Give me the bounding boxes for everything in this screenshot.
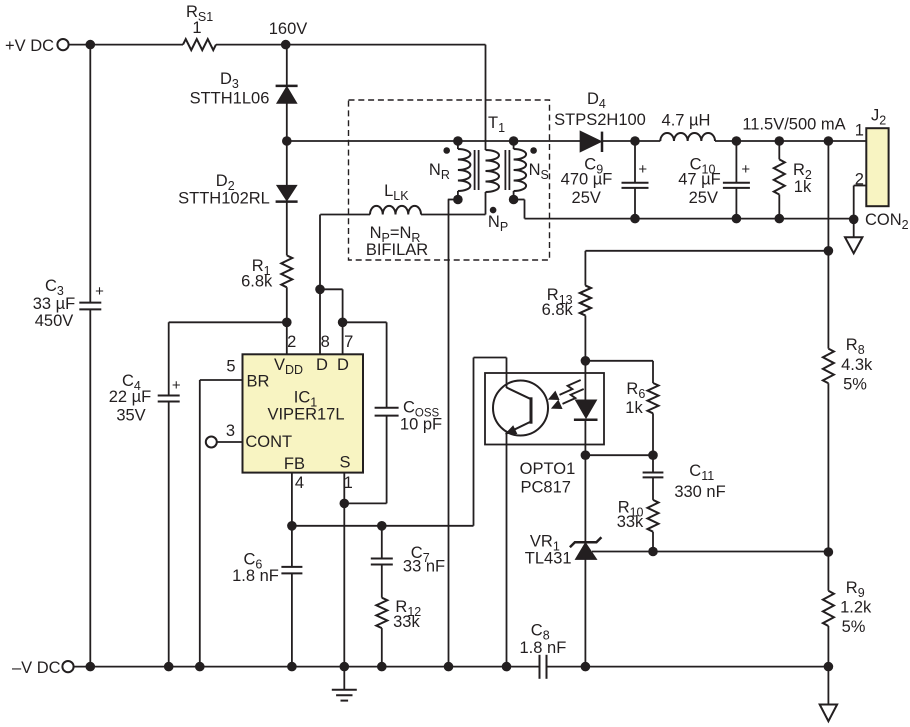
svg-text:S: S bbox=[339, 454, 350, 472]
svg-text:450V: 450V bbox=[35, 312, 74, 330]
svg-text:4.3k: 4.3k bbox=[841, 356, 873, 374]
svg-text:BIFILAR: BIFILAR bbox=[366, 241, 428, 259]
svg-text:2: 2 bbox=[287, 333, 296, 351]
svg-text:1: 1 bbox=[855, 122, 864, 140]
svg-text:1.8 nF: 1.8 nF bbox=[232, 567, 279, 585]
svg-text:160V: 160V bbox=[269, 20, 308, 38]
svg-text:3: 3 bbox=[226, 422, 235, 440]
svg-text:1: 1 bbox=[192, 19, 201, 37]
svg-text:33 µF: 33 µF bbox=[33, 295, 76, 313]
svg-text:1k: 1k bbox=[794, 178, 812, 196]
svg-text:4: 4 bbox=[295, 474, 304, 492]
svg-text:25V: 25V bbox=[572, 189, 601, 207]
svg-text:+: + bbox=[638, 161, 647, 178]
svg-text:22 µF: 22 µF bbox=[109, 388, 152, 406]
svg-text:6.8k: 6.8k bbox=[241, 273, 273, 291]
svg-text:470 µF: 470 µF bbox=[561, 171, 613, 189]
svg-text:STTH102RL: STTH102RL bbox=[178, 190, 270, 208]
svg-text:+: + bbox=[741, 161, 750, 178]
svg-text:11.5V/500 mA: 11.5V/500 mA bbox=[742, 116, 845, 134]
svg-text:1k: 1k bbox=[625, 399, 643, 417]
svg-text:5%: 5% bbox=[843, 376, 867, 394]
svg-text:1.8 nF: 1.8 nF bbox=[520, 639, 567, 657]
svg-text:6.8k: 6.8k bbox=[542, 301, 574, 319]
svg-text:1: 1 bbox=[344, 474, 353, 492]
svg-text:D: D bbox=[337, 356, 349, 374]
svg-text:BR: BR bbox=[247, 373, 270, 391]
svg-text:25V: 25V bbox=[689, 189, 718, 207]
svg-text:4.7 µH: 4.7 µH bbox=[662, 112, 711, 130]
svg-text:+: + bbox=[172, 377, 181, 394]
svg-text:1.2k: 1.2k bbox=[840, 599, 872, 617]
svg-text:–V DC: –V DC bbox=[12, 659, 61, 677]
svg-text:STPS2H100: STPS2H100 bbox=[554, 111, 646, 129]
svg-text:47 µF: 47 µF bbox=[678, 171, 721, 189]
svg-text:FB: FB bbox=[284, 455, 305, 473]
svg-text:+: + bbox=[95, 283, 104, 300]
svg-text:33k: 33k bbox=[617, 513, 644, 531]
svg-text:OPTO1: OPTO1 bbox=[520, 460, 576, 478]
svg-text:33 nF: 33 nF bbox=[403, 558, 445, 576]
svg-text:35V: 35V bbox=[116, 407, 145, 425]
svg-text:STTH1L06: STTH1L06 bbox=[190, 90, 270, 108]
svg-text:330 nF: 330 nF bbox=[674, 483, 725, 501]
svg-text:2: 2 bbox=[855, 171, 864, 189]
svg-text:7: 7 bbox=[344, 333, 353, 351]
svg-text:5%: 5% bbox=[842, 618, 866, 636]
svg-text:D: D bbox=[316, 356, 328, 374]
svg-text:8: 8 bbox=[321, 333, 330, 351]
svg-text:10 pF: 10 pF bbox=[400, 416, 442, 434]
svg-text:CONT: CONT bbox=[245, 433, 292, 451]
svg-text:PC817: PC817 bbox=[520, 479, 570, 497]
svg-text:TL431: TL431 bbox=[525, 550, 572, 568]
svg-text:33k: 33k bbox=[393, 613, 420, 631]
svg-text:5: 5 bbox=[226, 358, 235, 376]
svg-text:+V DC: +V DC bbox=[5, 37, 54, 55]
svg-text:VIPER17L: VIPER17L bbox=[267, 406, 344, 424]
